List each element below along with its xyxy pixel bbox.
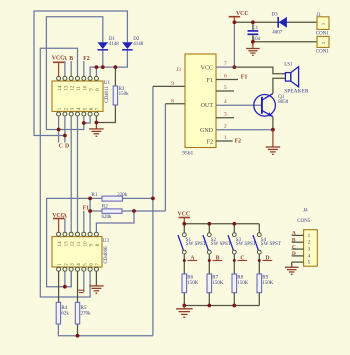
junction dots VCC rail xyxy=(233,20,237,24)
IC J3 9561 body xyxy=(185,54,216,148)
svg-text:10: 10 xyxy=(83,241,88,247)
svg-text:CD4066: CD4066 xyxy=(104,246,109,263)
svg-text:B: B xyxy=(292,238,296,244)
wire U1 pin1 stub and net C tag xyxy=(58,116,60,130)
IC U3 CD4066 body xyxy=(52,237,102,267)
resistor R3 150k xyxy=(113,86,117,105)
ground at C1 xyxy=(252,42,254,49)
svg-text:CON1: CON1 xyxy=(316,50,330,55)
junction dot emitter gnd xyxy=(271,128,275,132)
wire C1 bottom to CON1 second xyxy=(253,41,317,43)
svg-text:VCC: VCC xyxy=(201,65,213,71)
ground at U1 pin 7 xyxy=(95,123,97,129)
ground switch bank xyxy=(183,306,185,309)
svg-text:13: 13 xyxy=(64,241,69,247)
wire U1 pin6 stub xyxy=(84,116,90,123)
svg-text:OUT: OUT xyxy=(201,103,214,109)
wire Q1 emitter to GND net xyxy=(272,117,274,130)
svg-text:F1: F1 xyxy=(207,78,213,84)
connector CON1 lower xyxy=(317,36,329,47)
svg-text:4: 4 xyxy=(224,99,227,105)
svg-text:SW SPST: SW SPST xyxy=(186,242,206,247)
U1 bottom pins 1-7 xyxy=(57,112,61,116)
svg-text:62k: 62k xyxy=(61,311,69,316)
U3 top pins 14-8 xyxy=(57,232,61,236)
svg-text:R5: R5 xyxy=(81,306,87,311)
wire U1 pin11 to U3 pin6 (long left vertical) xyxy=(40,48,90,297)
svg-text:12: 12 xyxy=(71,85,76,91)
wire U1 pin2 stub and net D tag xyxy=(64,116,66,136)
wire U3 pin4 to R5 xyxy=(77,271,79,302)
wire R2 right to J3 pin8 vertical xyxy=(122,210,165,212)
svg-text:1: 1 xyxy=(224,135,227,141)
svg-text:SW SPST: SW SPST xyxy=(236,242,256,247)
svg-text:J4: J4 xyxy=(303,208,308,213)
wire R2 left vertical R1-junction to U3 pin9 xyxy=(89,198,91,232)
wire R3 top lead xyxy=(114,67,116,86)
svg-text:C: C xyxy=(59,144,63,150)
svg-text:150K: 150K xyxy=(187,281,199,286)
svg-text:5: 5 xyxy=(308,260,311,266)
resistor R8 150K xyxy=(232,274,237,293)
svg-text:C1: C1 xyxy=(252,26,258,31)
capacitor C1 104 xyxy=(252,22,254,30)
svg-text:5: 5 xyxy=(224,85,227,91)
switch S2 SW SPST xyxy=(208,224,210,233)
wire J3 pin9 vertical down to R4 R5 bottom bus xyxy=(152,86,154,335)
svg-text:R4: R4 xyxy=(61,306,67,311)
svg-text:10: 10 xyxy=(83,85,88,91)
resistor R4 62k xyxy=(56,302,60,324)
svg-text:F2: F2 xyxy=(207,139,213,145)
svg-text:220k: 220k xyxy=(117,193,128,198)
svg-text:3: 3 xyxy=(224,112,227,118)
wire S1 to R6 and net A label xyxy=(183,254,185,274)
svg-text:D: D xyxy=(65,144,69,150)
svg-text:9561: 9561 xyxy=(182,151,193,157)
svg-text:D: D xyxy=(292,251,296,257)
junction dot J3 pin7 VCC xyxy=(233,65,237,69)
resistor R6 150K xyxy=(182,274,187,293)
svg-text:CON1: CON1 xyxy=(316,31,330,36)
U1 top pins 14-8 xyxy=(57,76,61,80)
wire J3 pin9 lead xyxy=(153,85,185,87)
diode D1 4148 xyxy=(98,42,109,49)
svg-text:14: 14 xyxy=(58,85,63,91)
resistor R2 620k xyxy=(102,209,122,213)
svg-text:14: 14 xyxy=(58,241,63,247)
svg-text:150k: 150k xyxy=(119,92,130,97)
wire U3 pin1 to R4 xyxy=(58,271,60,302)
junction dot U3 pin2 xyxy=(63,285,67,289)
svg-text:7: 7 xyxy=(224,61,227,67)
svg-text:3: 3 xyxy=(308,247,311,253)
transistor Q1 8050 xyxy=(254,95,276,117)
svg-text:R7: R7 xyxy=(212,275,218,280)
wire R6 bottom xyxy=(183,293,185,306)
svg-text:620k: 620k xyxy=(102,215,113,220)
svg-text:R6: R6 xyxy=(187,275,193,280)
svg-text:2: 2 xyxy=(308,240,311,246)
resistor R5 270k xyxy=(75,302,79,324)
wire U1 pin4 to U3 pin11 xyxy=(77,116,79,232)
svg-text:U3: U3 xyxy=(103,239,110,244)
svg-text:R8: R8 xyxy=(237,275,243,280)
svg-text:8050: 8050 xyxy=(278,100,289,105)
ground at J3 pin2 xyxy=(272,130,274,147)
ground at J4 pin5 xyxy=(291,262,293,267)
svg-text:C: C xyxy=(292,244,296,250)
wire VCC rail down to J3 pin7 xyxy=(233,22,235,67)
wire U3 pin2 stub xyxy=(64,271,66,287)
svg-text:150K: 150K xyxy=(212,281,224,286)
wire J3 pin7 to speaker xyxy=(234,67,285,74)
wire J3 pin8 lead xyxy=(165,103,185,105)
switch S4 SW SPST xyxy=(258,224,260,233)
U3 bottom pins 1-7 xyxy=(57,267,61,271)
switch S1 SW SPST xyxy=(183,224,185,233)
svg-text:4007: 4007 xyxy=(272,31,283,36)
svg-text:SW SPST: SW SPST xyxy=(211,242,231,247)
resistor R1 220k xyxy=(102,196,123,201)
junction dots cathode bus xyxy=(95,65,99,69)
wire D1 cathode drop xyxy=(102,50,104,67)
junction dots U1 bottom xyxy=(57,128,61,132)
svg-text:SPEAKER: SPEAKER xyxy=(284,88,309,94)
wire switch top bus xyxy=(184,223,259,225)
wire U1 pin5 stub xyxy=(83,116,85,123)
wire cathode bus D1 D2 R3 U1 pins 8,9 xyxy=(90,50,127,77)
svg-text:1: 1 xyxy=(308,233,311,239)
wire R8 bottom xyxy=(233,293,235,306)
svg-text:4148: 4148 xyxy=(133,42,144,47)
svg-text:6: 6 xyxy=(224,73,227,79)
J3 right pin leads and numbers xyxy=(216,66,234,68)
svg-text:150K: 150K xyxy=(262,281,274,286)
wire R9 bottom xyxy=(258,293,260,306)
wire R3 bottom to U1 pin7 xyxy=(96,105,115,123)
wire S3 to R8 and net C label xyxy=(233,254,235,274)
svg-text:11: 11 xyxy=(77,85,82,90)
IC U1 CD4011 body xyxy=(52,81,103,111)
junction dots switch buses xyxy=(207,222,211,226)
svg-text:GND: GND xyxy=(200,128,214,134)
svg-text:2: 2 xyxy=(224,124,227,130)
wire R7 bottom xyxy=(208,293,210,306)
wire R4 R5 bottom bus to J3 pin9 vertical xyxy=(58,324,152,336)
wire U1 pin3 to U3 pin12 xyxy=(70,116,72,232)
svg-text:SW SPST: SW SPST xyxy=(261,242,281,247)
svg-text:U1: U1 xyxy=(104,81,111,86)
svg-text:CON5: CON5 xyxy=(297,219,311,224)
svg-text:F1: F1 xyxy=(83,205,90,211)
wire net C: U1 pin1 left-up-over to D1 anode xyxy=(46,17,102,130)
svg-text:11: 11 xyxy=(77,241,82,246)
wire U3 pin3 stub xyxy=(70,271,72,287)
svg-text:F1: F1 xyxy=(241,74,248,80)
wire S4 to R9 and net D label xyxy=(258,254,260,274)
wire J3 pin8 vertical xyxy=(164,104,166,211)
svg-text:4148: 4148 xyxy=(109,42,120,47)
svg-text:LS1: LS1 xyxy=(284,63,293,68)
svg-text:J3: J3 xyxy=(176,67,181,73)
svg-text:VCC: VCC xyxy=(178,211,191,217)
diode D3 4007 xyxy=(277,17,279,28)
wire U1 pin7 stub xyxy=(95,116,97,123)
wire R1 left net to U3 pins2-3 xyxy=(47,198,102,286)
wire Q1 collector to speaker xyxy=(273,78,286,93)
svg-text:CD4011: CD4011 xyxy=(105,86,110,103)
wire U1 pin8 stub xyxy=(95,67,97,76)
J4 pin leads with net labels A B C D xyxy=(292,234,304,236)
wire switch bottom bus xyxy=(184,305,259,307)
svg-text:9: 9 xyxy=(171,81,174,87)
resistor R7 150K xyxy=(207,274,212,293)
resistor R9 150K xyxy=(257,274,262,293)
svg-text:A: A xyxy=(292,231,296,237)
wire S2 to R7 and net B label xyxy=(208,254,210,274)
wire net D: U1 pin2 left-up-over to D2 anode xyxy=(34,11,127,136)
wire R1 right to J3 pin9 vertical xyxy=(123,197,153,199)
svg-text:R9: R9 xyxy=(262,275,268,280)
svg-text:R2: R2 xyxy=(102,205,108,210)
wire VCC rail to J1 pin xyxy=(234,21,317,23)
svg-text:13: 13 xyxy=(64,85,69,91)
svg-text:270k: 270k xyxy=(81,311,92,316)
switch S3 SW SPST xyxy=(233,224,235,233)
junction dots R1 R2 xyxy=(88,197,92,201)
svg-text:8: 8 xyxy=(171,99,174,105)
svg-text:R1: R1 xyxy=(92,193,98,198)
diode D2 4148 xyxy=(122,42,133,49)
ground at U3 pin7 xyxy=(95,271,97,286)
wire R2 right drop to U3 pin8 xyxy=(96,211,134,232)
svg-text:150K: 150K xyxy=(237,281,249,286)
svg-text:D3: D3 xyxy=(272,12,279,17)
svg-text:4: 4 xyxy=(308,253,311,259)
svg-text:F2: F2 xyxy=(235,139,242,145)
svg-text:12: 12 xyxy=(71,241,76,247)
wire U3 pin5 stub with termination bars xyxy=(83,271,85,292)
